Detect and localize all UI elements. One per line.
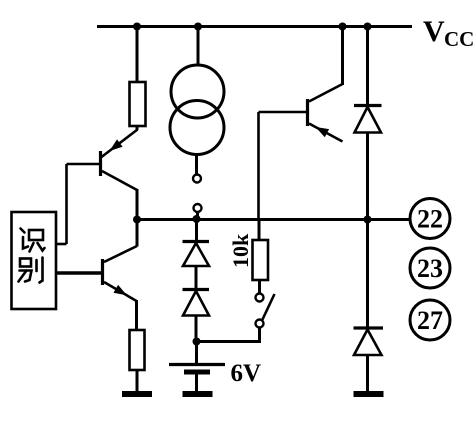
- current source I1: [170, 27, 224, 175]
- diode D3: [354, 106, 382, 133]
- wire D1 to D2: [195, 266, 198, 290]
- node rail-current-source junction: [194, 23, 202, 31]
- node rail-Q3 junction: [339, 23, 347, 31]
- transistor Q1: [101, 130, 138, 191]
- wire node down to D4: [366, 220, 369, 329]
- svg-text:23: 23: [417, 254, 443, 283]
- svg-text:22: 22: [417, 205, 443, 234]
- pin 22 circle: [410, 199, 450, 239]
- ground below D4: [354, 391, 384, 397]
- wire R3 to switch: [258, 280, 261, 294]
- wire main output horizontal: [137, 218, 410, 221]
- node battery top: [193, 338, 201, 346]
- resistor R2: [130, 330, 145, 370]
- svg-text:CC: CC: [444, 27, 474, 51]
- wire VCC top rail: [97, 25, 412, 28]
- node rail-D3 junction: [364, 23, 372, 31]
- ground below battery: [183, 391, 213, 397]
- transistor Q3: [308, 84, 343, 142]
- svg-text:6V: 6V: [231, 360, 262, 387]
- resistor R3 10k: [253, 240, 269, 280]
- wire Q2 collector up to output node: [136, 220, 139, 247]
- battery B1 6V: [169, 365, 225, 373]
- wire plug to main node: [196, 212, 199, 220]
- wire node to battery: [195, 342, 198, 364]
- resistor R1: [130, 82, 146, 126]
- ground below R2: [122, 391, 152, 397]
- wire rail to D3: [366, 27, 369, 106]
- wire R1 to Q1 emitter: [136, 126, 139, 130]
- wire rail to R1: [136, 27, 139, 83]
- wire Q3 collector to rail: [341, 27, 344, 86]
- switch S1: [256, 294, 275, 328]
- node diode chain top: [193, 215, 201, 223]
- transistor Q2: [103, 246, 138, 301]
- wire R2 to ground: [136, 370, 139, 392]
- wire switch down and left to battery node: [197, 328, 260, 342]
- wire D2 to battery node: [195, 316, 198, 342]
- node rail-R1 junction: [133, 23, 141, 31]
- terminal plug upper: [193, 175, 201, 183]
- wire main node to 10k resistor: [258, 220, 261, 241]
- node D3-D4 column: [364, 216, 372, 224]
- wire Q3 base down to main wire: [257, 112, 260, 220]
- node Q1/Q2 collectors: [133, 216, 141, 224]
- svg-text:27: 27: [417, 306, 443, 335]
- pin 23 circle: [410, 248, 450, 288]
- hanzi 识: [21, 229, 45, 252]
- wire Q2 emitter down to R2: [135, 300, 138, 330]
- diode D2: [183, 290, 210, 316]
- svg-text:10k: 10k: [228, 233, 253, 268]
- wire main node down to D1: [195, 220, 198, 242]
- wire D4 to ground: [366, 355, 369, 391]
- wire Q3 base left: [259, 111, 308, 114]
- terminal plug lower: [194, 204, 202, 212]
- wire D3 to node: [366, 133, 369, 220]
- box 识别 (recognition block): [12, 212, 57, 309]
- hanzi 别: [19, 258, 43, 283]
- svg-text:V: V: [423, 15, 445, 48]
- wire battery to ground: [195, 374, 198, 392]
- diode D1: [183, 242, 210, 267]
- diode D4: [354, 328, 384, 355]
- wire Q1 base left and down to box: [67, 163, 101, 166]
- pin 27 circle: [410, 300, 450, 340]
- wire box to Q2 base: [56, 271, 103, 274]
- wire Q1 collector down to output node: [136, 189, 139, 220]
